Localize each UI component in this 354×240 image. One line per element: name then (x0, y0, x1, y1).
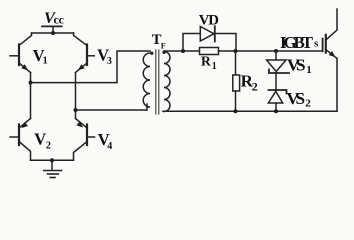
base bar V3 (86, 45, 88, 66)
label V1 (33, 46, 48, 66)
label IGBTs (280, 33, 319, 52)
polarity dot primary (150, 52, 153, 55)
Vcc label (44, 8, 65, 27)
svg-text:1: 1 (212, 61, 217, 72)
base lead V1 (10, 55, 19, 57)
base lead V3 (87, 55, 94, 57)
transformer core (156, 50, 159, 114)
svg-text:1: 1 (306, 64, 312, 76)
emitter arrow V3 (78, 64, 85, 70)
wire VS2 anode to bottom rail (275, 103, 277, 111)
wire R2 to bottom rail (235, 91, 237, 111)
transistor V3 (NPN, upper right, mirrored) (74, 33, 95, 110)
junction dot R2 top (234, 49, 238, 53)
svg-text:VS: VS (287, 56, 306, 75)
base bar V1 (18, 45, 20, 66)
resistor R1 (200, 48, 219, 55)
junction dot VD anode branch (181, 49, 185, 53)
svg-text:1: 1 (43, 56, 48, 67)
wire bottom return rail (163, 110, 337, 112)
label VD (199, 12, 219, 28)
emitter lead V3 (76, 63, 88, 73)
transistor V4 (PNP, lower right, mirrored) (74, 110, 95, 160)
wire collector V1 (20, 33, 32, 45)
base lead V4 (87, 136, 95, 138)
svg-text:2: 2 (305, 97, 311, 109)
wire bottom rail (31, 159, 74, 161)
wire Vcc stem (52, 26, 54, 33)
ground (44, 160, 62, 177)
label R1 (201, 53, 217, 72)
junction dot ground rail (50, 158, 54, 162)
emitter arrow V1 (21, 64, 28, 70)
wire emitter V3 down (75, 73, 77, 111)
wire collector V4 to bottom rail (74, 142, 87, 160)
polarity dot secondary (162, 51, 165, 54)
wire node B to primary bottom (76, 104, 148, 110)
node B: V3/V4 emitter junction (74, 108, 78, 112)
label V2 (34, 129, 51, 151)
zener VS2 (268, 90, 286, 103)
label R2 (241, 71, 258, 93)
wire R1 to junction (219, 50, 236, 52)
svg-text:2: 2 (46, 141, 51, 152)
transformer TF primary winding (143, 53, 150, 107)
body bar IGBT (325, 35, 327, 53)
wire top rail (32, 32, 74, 34)
diode VD (200, 26, 215, 41)
wire VD branch (183, 34, 236, 52)
emitter lead V2 (20, 119, 31, 128)
resistor R2 (233, 75, 240, 91)
svg-text:cc: cc (54, 13, 65, 27)
base bar V2 (18, 125, 20, 146)
svg-text:VS: VS (287, 89, 306, 108)
Vcc terminal bar (42, 25, 62, 27)
wire junction to R2 (235, 51, 237, 75)
emitter lead IGBT (326, 50, 337, 59)
emitter arrow V2 (21, 122, 28, 128)
node A: V1/V2 emitter junction (29, 81, 33, 85)
gate bar IGBT (322, 39, 324, 52)
wire secondary top to R1 (164, 50, 200, 52)
junction dot VS branch (274, 49, 278, 53)
transformer TF secondary winding (164, 52, 170, 112)
wire node A to primary top (31, 51, 151, 83)
transistor V2 (PNP, lower left) (10, 83, 31, 161)
junction dot R2 bottom (234, 109, 238, 113)
svg-text:4: 4 (107, 141, 112, 152)
zener VS1 (267, 60, 290, 73)
label TF (152, 32, 166, 51)
label V4 (98, 130, 112, 152)
emitter lead V1 (19, 63, 31, 73)
IGBT (insulated-gate bipolar transistor) (323, 9, 337, 111)
emitter arrow IGBT (329, 51, 336, 57)
transistor V1 (NPN, upper left) (10, 33, 32, 83)
wire collector IGBT (326, 9, 337, 40)
wire emitter V1 down (30, 73, 32, 83)
wire collector V2 to bottom rail (20, 142, 31, 160)
junction dot VS2 bottom (274, 109, 278, 113)
wire emitter IGBT to bottom rail (336, 59, 338, 112)
emitter lead V4 (76, 119, 87, 128)
svg-text:R: R (201, 53, 211, 68)
wire emitter V4 from node B (75, 110, 77, 119)
emitter arrow V4 (76, 121, 83, 127)
label V3 (97, 45, 112, 67)
svg-text:F: F (161, 42, 166, 51)
base lead V2 (10, 136, 19, 138)
label VS2 (287, 89, 312, 109)
wire collector V3 (74, 33, 87, 45)
junction dot Vcc rail (51, 31, 55, 35)
wire emitter V2 from node A (30, 83, 32, 119)
svg-text:D: D (208, 12, 219, 28)
wire VS1 cathode to VS2 cathode (275, 73, 277, 90)
svg-text:2: 2 (252, 79, 258, 93)
wire to VS1 anode (275, 51, 277, 60)
svg-text:V: V (34, 129, 46, 148)
label VS1 (287, 56, 312, 77)
svg-text:IGBT: IGBT (280, 33, 314, 52)
svg-text:s: s (314, 38, 319, 50)
svg-text:3: 3 (107, 56, 112, 67)
base bar V4 (86, 125, 88, 146)
wire gate row to IGBT (236, 50, 322, 52)
